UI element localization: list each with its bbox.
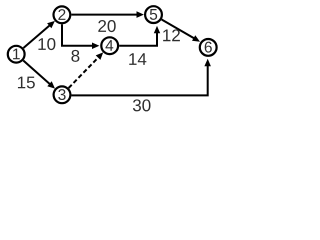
node 4 (101, 37, 118, 54)
node 3 (54, 86, 71, 103)
wire edge 3-6 (72, 59, 211, 96)
label 30 (133, 99, 151, 111)
label 12 (163, 29, 180, 41)
label 10 (38, 38, 55, 50)
label 20 (98, 20, 115, 32)
node 5 (145, 6, 162, 23)
wire edge 5-6 (162, 20, 200, 42)
label 8 (71, 50, 79, 62)
node 1 (8, 46, 25, 63)
wire edge 3-4 dashed (69, 52, 104, 88)
wire edge 2-5 (71, 11, 143, 18)
node 2 (54, 6, 71, 23)
wire edge 4-5 (119, 26, 160, 46)
node 6 (200, 39, 217, 56)
wire edge 1-2 (23, 21, 55, 48)
wire edge 1-3 (23, 61, 55, 89)
label 14 (129, 53, 146, 65)
wire edge 2-4 (62, 24, 99, 49)
label 15 (18, 77, 35, 89)
